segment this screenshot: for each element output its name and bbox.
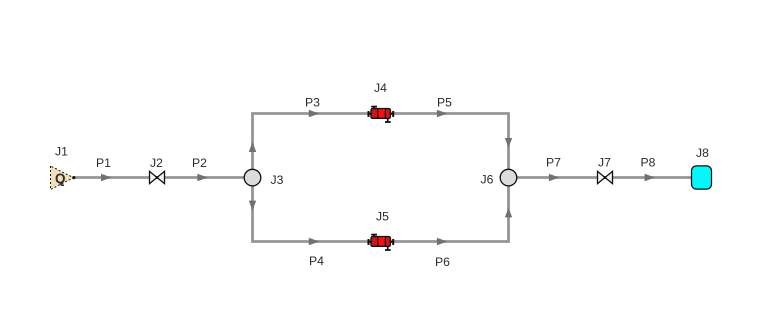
wire pipe P4 (J3 down then right to J5): [249, 178, 381, 246]
svg-text:P2: P2: [192, 156, 207, 170]
svg-text:J1: J1: [55, 144, 68, 158]
junction J1 assigned flow (dashed tan triangle with Q): [51, 166, 76, 190]
svg-text:J5: J5: [376, 209, 389, 223]
svg-text:P7: P7: [546, 155, 561, 169]
svg-text:Q: Q: [55, 171, 66, 186]
wire pipe P5 (J4 right then down to J6): [380, 110, 512, 178]
svg-text:J8: J8: [696, 146, 709, 160]
wire pipe P2 (shares line with P1, arrow only): [197, 174, 208, 181]
svg-text:P6: P6: [435, 255, 450, 269]
svg-text:J7: J7: [598, 155, 611, 169]
svg-text:P1: P1: [96, 156, 111, 170]
svg-text:P3: P3: [305, 95, 320, 109]
wire pipe P8 (J7 to J8, arrow only): [645, 174, 656, 181]
svg-text:P5: P5: [437, 95, 452, 109]
svg-text:J3: J3: [271, 173, 284, 187]
wire pipe P6 (J5 right then up to J6): [380, 178, 512, 246]
wire pipe P7 (J6 to J7): [509, 174, 693, 181]
valve J2 (bowtie): [150, 171, 165, 183]
wire pipe P3 (J3 up then right to J4): [249, 110, 381, 178]
svg-text:J4: J4: [374, 81, 387, 95]
branch junction J3 (circle): [244, 169, 261, 186]
heat exchanger J4: [367, 106, 394, 122]
svg-text:P4: P4: [309, 254, 324, 268]
svg-text:J2: J2: [150, 156, 163, 170]
svg-text:P8: P8: [641, 155, 656, 169]
valve J7 (bowtie): [598, 171, 613, 183]
wire pipe P1: [73, 174, 245, 181]
svg-text:J6: J6: [481, 173, 494, 187]
heat exchanger J5: [367, 234, 394, 250]
reservoir J8 (cyan tank): [692, 166, 712, 189]
branch junction J6 (circle): [500, 169, 517, 186]
